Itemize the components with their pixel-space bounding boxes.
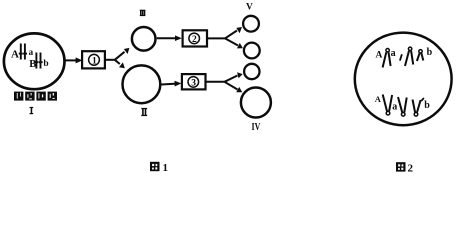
svg-text:B: B (29, 59, 36, 70)
svg-text:A: A (376, 51, 383, 61)
label I (roman numeral) (30, 107, 34, 114)
svg-text:a: a (391, 48, 396, 59)
wire arrow: cell I to box 1 (66, 57, 83, 63)
circled digit 2 (189, 33, 200, 45)
circled digit 3 (188, 77, 199, 89)
process box 3 (182, 74, 206, 89)
label III (140, 10, 146, 16)
caption 图2 (396, 162, 414, 174)
svg-text:3: 3 (191, 78, 196, 88)
svg-text:a: a (29, 47, 34, 57)
wire: box 3 to split (206, 81, 224, 83)
process box 1 (82, 51, 105, 68)
svg-text:b: b (424, 100, 430, 111)
svg-text:1: 1 (163, 162, 169, 173)
small tick (bottom row) (421, 98, 424, 101)
chromosome vee 3 (bottom) (413, 100, 421, 117)
polar body circle IV (241, 88, 271, 118)
svg-text:2: 2 (408, 162, 414, 173)
svg-text:A: A (11, 49, 19, 61)
svg-text:b: b (43, 59, 48, 69)
polar body circle V (243, 16, 259, 32)
chromosome bar A1 (19, 44, 23, 60)
chromosome lambda 3 (top) (417, 50, 423, 61)
wire arrow: split down to circle II (115, 60, 125, 68)
wire: box 1 to split (106, 59, 115, 61)
chromosome bar B1 (34, 53, 38, 69)
wire arrow: split up to third small circle (225, 72, 243, 82)
wire arrow: split down to circle IV (225, 82, 243, 93)
wire arrow: split up to circle III (115, 48, 130, 60)
egg-cell circle (second small) (244, 43, 260, 59)
wire arrow: circle III to box 2 (157, 35, 182, 41)
chromosome vee 2 (bottom) (398, 97, 407, 116)
figure 2 cell circle (355, 33, 452, 126)
chromosome lambda 1 (top) (383, 49, 391, 68)
wire arrow: split up to circle V (225, 27, 242, 38)
chromosome bar B2 (39, 53, 43, 69)
svg-text:2: 2 (192, 35, 197, 45)
svg-text:IV: IV (252, 122, 261, 133)
svg-text:A: A (375, 94, 382, 104)
secondary oocyte circle II (122, 65, 160, 103)
oogonium cell circle I (4, 33, 65, 89)
circled digit 1 (89, 54, 100, 66)
text 卵原细胞 (drawn glyph blocks) (14, 92, 57, 101)
label II (141, 108, 147, 116)
svg-text:a: a (392, 102, 397, 113)
chromosome lambda 2 (top) (405, 47, 413, 66)
chromosome vee 1 (bottom) (383, 95, 392, 115)
third small circle (244, 64, 259, 79)
chromosome bar A2 (23, 44, 27, 60)
caption 图1 (150, 162, 168, 174)
secondary oocyte circle III (132, 27, 156, 51)
small stray stroke (top row) (400, 54, 402, 60)
svg-text:b: b (427, 47, 433, 58)
process box 2 (183, 30, 207, 46)
svg-text:1: 1 (92, 56, 97, 66)
wire: box 2 to split (207, 37, 225, 39)
svg-text:V: V (246, 2, 253, 12)
wire arrow: split down to circle below V (225, 38, 243, 48)
wire arrow: circle II to box 3 (162, 81, 182, 87)
